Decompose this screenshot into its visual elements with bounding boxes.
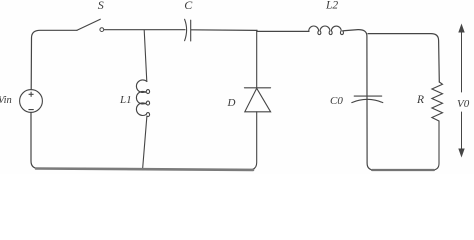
node diode junction — [257, 30, 309, 31]
resistor R — [432, 82, 443, 121]
svg-text:V0: V0 — [457, 98, 470, 110]
wire L2 to C0 corner — [343, 30, 374, 170]
svg-text:C0: C0 — [330, 95, 343, 107]
diode D — [244, 88, 270, 112]
svg-text:D: D — [227, 97, 236, 109]
source Vin — [20, 90, 43, 113]
wire R to bottom right rail — [432, 121, 439, 170]
wire diode branch upper — [256, 31, 258, 88]
inductor L2 — [309, 26, 344, 35]
capacitor C — [185, 19, 191, 41]
inductor L1 — [136, 80, 149, 117]
arrow V0 — [461, 31, 463, 150]
node junction to L1 branch — [144, 30, 147, 82]
svg-text:C: C — [184, 0, 193, 12]
wire C0 node to R corner — [368, 34, 439, 82]
bottom rail right — [372, 169, 434, 171]
wire switch to capacitor C — [104, 29, 185, 31]
capacitor C0 — [352, 96, 383, 103]
wire capacitor to diode node — [191, 29, 257, 32]
wire left vertical below source to bottom rail — [31, 112, 39, 168]
switch S — [77, 19, 104, 31]
svg-text:Vin: Vin — [0, 95, 12, 106]
svg-text:L2: L2 — [325, 0, 338, 11]
wire diode to bottom rail with corner — [249, 112, 257, 170]
wire top-left corner + left vertical to source — [31, 30, 77, 89]
wire L1 to bottom rail — [143, 116, 147, 169]
svg-text:L1: L1 — [119, 94, 132, 106]
svg-text:S: S — [98, 0, 104, 12]
svg-text:R: R — [416, 94, 424, 106]
bottom rail left — [36, 169, 253, 170]
